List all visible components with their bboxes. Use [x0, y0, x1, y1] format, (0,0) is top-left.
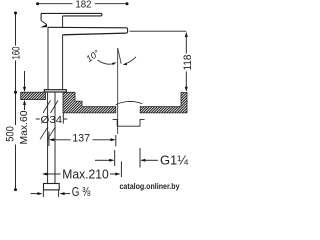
svg-text:137: 137 [72, 133, 90, 145]
svg-text:160: 160 [10, 47, 22, 60]
svg-text:G ⅜: G ⅜ [72, 185, 91, 199]
svg-text:500: 500 [4, 126, 16, 142]
svg-text:118: 118 [182, 55, 194, 71]
body right edge [62, 35, 64, 90]
dim Max.60 lower arrow [23, 100, 26, 110]
dim 160 dimension line [14, 12, 17, 94]
drain dome arc [116, 101, 143, 104]
svg-text:G1¼: G1¼ [160, 153, 188, 168]
svg-text:Ø34: Ø34 [41, 114, 63, 126]
lever tip wedge [40, 24, 47, 27]
dim Max.210 [42, 161, 121, 177]
stream 10deg slant [118, 48, 122, 64]
angle arc left [98, 60, 117, 65]
G1 1/4 bracket left arrow [95, 150, 115, 166]
lever front bevel [41, 21, 47, 25]
spout top edge [48, 26, 127, 29]
dim Max.60 upper arrow [23, 71, 26, 92]
dim 137 dimension line [49, 132, 116, 147]
svg-text:182: 182 [75, 0, 91, 11]
deck left slab [13, 92, 52, 99]
thread slashes upper [43, 101, 58, 114]
supply nut [44, 184, 60, 190]
dim 182 dimension line [36, 2, 128, 5]
svg-text:10°: 10° [84, 48, 101, 64]
label O34 [36, 113, 68, 123]
dim 118 dimension line [185, 32, 188, 92]
lever blade [41, 13, 102, 16]
svg-text:catalog.onliner.by: catalog.onliner.by [120, 182, 181, 191]
dim 500 dimension line [14, 92, 17, 191]
drain tailpiece [113, 120, 145, 127]
spout tip face [126, 28, 128, 33]
basin floor right and column [120, 93, 205, 113]
base plate [44, 90, 66, 92]
angle arc right [123, 57, 136, 65]
lever front face [40, 13, 42, 20]
spout underside [63, 33, 126, 35]
G 3/8 bracket left arrow [31, 190, 44, 197]
body left edge [47, 27, 49, 89]
svg-text:Max.60: Max.60 [18, 110, 30, 144]
G 3/8 bracket right arrow [59, 190, 70, 197]
shank left line [47, 92, 49, 183]
thread slashes lower [40, 127, 56, 140]
water stream axis line [117, 48, 119, 134]
svg-text:Max.210: Max.210 [62, 168, 109, 182]
G1 1/4 bracket right arrow [140, 148, 158, 168]
dim 118 reference line [130, 30, 187, 32]
deck right block and basin floor [42, 92, 135, 113]
shank right line [54, 92, 56, 183]
cartridge neck [62, 16, 64, 27]
